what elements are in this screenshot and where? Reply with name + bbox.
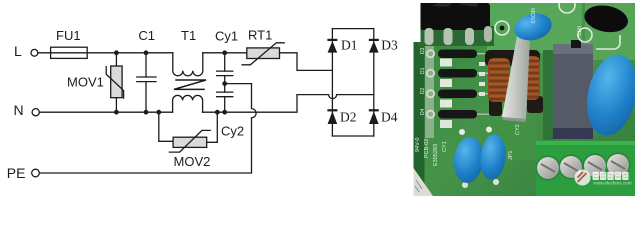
svg-text:D3: D3 — [420, 47, 426, 54]
svg-text:L: L — [14, 43, 22, 59]
lighter silk panels — [487, 3, 582, 53]
top-left black connector — [418, 26, 494, 46]
film capacitor strip — [502, 28, 531, 122]
varistor MOV2 — [159, 112, 218, 169]
pads column — [479, 62, 485, 96]
black blob top right — [582, 2, 630, 35]
thermistor RT1 — [242, 28, 284, 65]
PCB photo — [414, 0, 635, 196]
wire N rail right of T1 — [203, 95, 297, 113]
T1 core — [174, 80, 206, 89]
node dot N-MOV2 left — [156, 110, 161, 115]
wire L rail right of T1 — [203, 52, 247, 54]
varistor MOV1 — [67, 53, 124, 112]
svg-text:D2: D2 — [340, 110, 357, 125]
diode D4 — [369, 109, 398, 124]
bridge left leg — [331, 29, 333, 136]
bridge top rail — [332, 28, 373, 30]
blue cap top — [511, 10, 554, 44]
svg-text:N: N — [14, 102, 24, 118]
svg-text:D4: D4 — [420, 108, 426, 115]
terminal N — [14, 102, 40, 118]
wire RT1 to bridge — [280, 53, 333, 71]
svg-text:E305283: E305283 — [433, 144, 439, 166]
svg-text:Cy2: Cy2 — [221, 123, 244, 138]
wire PE tap from node A — [40, 84, 257, 173]
svg-text:D3: D3 — [381, 38, 398, 53]
svg-text:PCB-02: PCB-02 — [424, 139, 430, 158]
vertical silk texts — [415, 8, 581, 166]
wire N rail — [39, 111, 172, 113]
wire N to bridge with hop over left leg — [297, 95, 374, 99]
transformer T1 common-mode choke — [173, 28, 206, 112]
svg-text:CY1: CY1 — [442, 141, 448, 152]
svg-text:PE: PE — [7, 165, 26, 181]
svg-text:Cy1: Cy1 — [215, 29, 238, 44]
bridge right leg — [373, 29, 375, 136]
diodes rows — [420, 47, 489, 128]
bridge bottom rail — [332, 135, 373, 137]
silscreen rings — [495, 0, 620, 49]
svg-text:T1: T1 — [181, 28, 196, 43]
svg-text:C1: C1 — [138, 28, 155, 43]
choke windings — [485, 50, 543, 116]
svg-text:CY2: CY2 — [515, 124, 521, 135]
capacitor C1 — [137, 28, 156, 112]
svg-text:RT1: RT1 — [248, 28, 272, 43]
svg-text:D4: D4 — [381, 110, 398, 125]
watermark — [575, 170, 632, 186]
terminal PE — [7, 165, 40, 181]
terminal L — [14, 43, 38, 59]
blue cap right — [580, 50, 635, 140]
terminal block — [536, 141, 635, 196]
capacitor Cy1 — [215, 29, 238, 84]
diode D3 — [369, 38, 398, 53]
T1 bottom winding — [173, 95, 203, 112]
diode D1 — [327, 38, 357, 53]
svg-text:JP1: JP1 — [508, 151, 514, 160]
node dot N-MOV2 right — [215, 110, 220, 115]
svg-text:D1: D1 — [420, 67, 426, 74]
diode D2 — [327, 109, 356, 124]
svg-text:www.elecfans.com: www.elecfans.com — [594, 181, 632, 186]
bottom left white triangle — [414, 168, 434, 196]
svg-text:D2: D2 — [420, 87, 426, 94]
node dot L-Cy1 — [222, 50, 227, 55]
fuse FU1 — [51, 28, 88, 58]
node dot L-MOV1 — [114, 50, 119, 55]
blue caps bottom-left pair — [459, 129, 465, 135]
svg-text:MOV2: MOV2 — [174, 154, 211, 169]
svg-text:MOV2: MOV2 — [529, 8, 535, 24]
node dot L-C1 — [144, 50, 149, 55]
dark left board edge — [414, 3, 425, 196]
svg-text:RT1: RT1 — [575, 26, 581, 36]
node dot N-C1 — [144, 110, 149, 115]
svg-text:94V-0: 94V-0 — [415, 138, 421, 152]
svg-text:FU1: FU1 — [56, 28, 81, 43]
node A midpoint Cy1/Cy2 — [222, 81, 227, 86]
capacitor Cy2 — [217, 84, 245, 139]
T1 top winding — [173, 53, 203, 76]
svg-text:MOV1: MOV1 — [67, 75, 104, 90]
node dot N-Cy2 — [222, 110, 227, 115]
relay block — [549, 113, 593, 139]
white silk column — [425, 36, 434, 138]
svg-text:D1: D1 — [341, 38, 358, 53]
node dot N-MOV1 — [114, 110, 119, 115]
wire L rail — [38, 52, 173, 54]
